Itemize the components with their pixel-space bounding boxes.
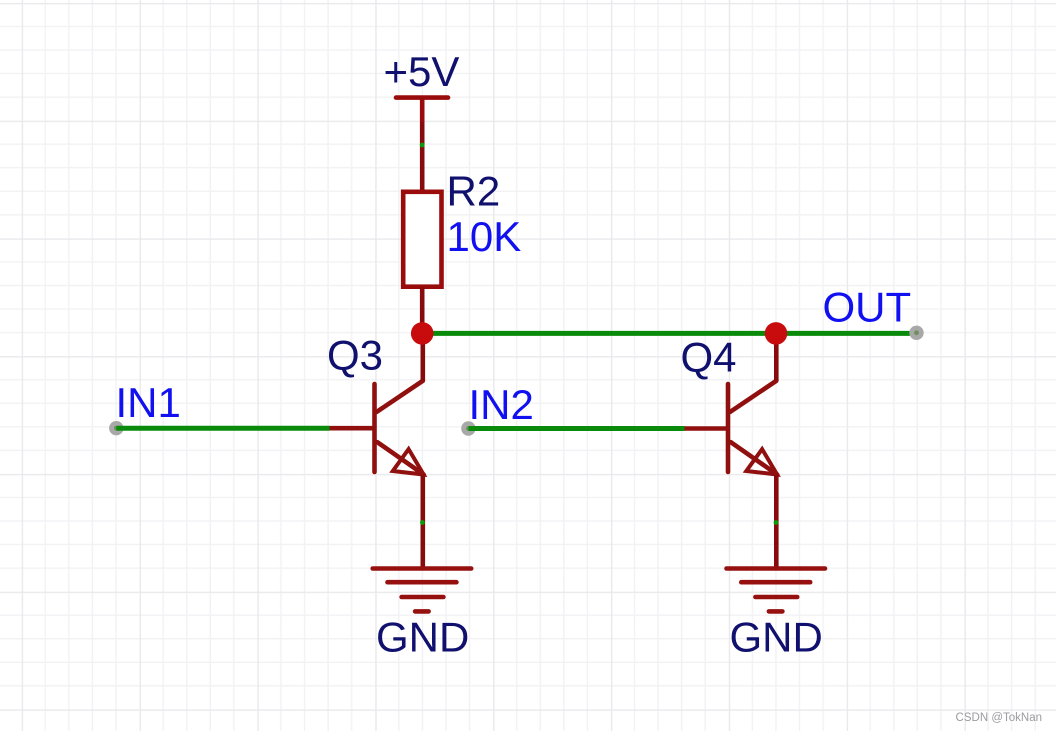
pin dot Q4 emitter <box>774 520 779 525</box>
wire R2 to node <box>420 287 425 333</box>
transistor Q3 <box>330 381 424 475</box>
svg-text:R2: R2 <box>447 168 501 215</box>
wire net IN1 (green) <box>116 426 329 431</box>
svg-text:+5V: +5V <box>384 48 460 95</box>
pin dot Q3 emitter <box>420 520 425 525</box>
pin end IN1 <box>109 421 123 435</box>
ground symbol left <box>373 569 472 612</box>
svg-text:IN1: IN1 <box>116 379 181 426</box>
collector wire Q4 <box>774 333 779 380</box>
svg-text:CSDN @TokNan: CSDN @TokNan <box>956 712 1042 724</box>
emitter wire Q3 to ground <box>420 475 425 569</box>
junction node at Q4 collector <box>765 322 788 345</box>
transistor Q4 <box>685 381 778 475</box>
ground symbol right <box>727 569 826 612</box>
power symbol +5V <box>396 98 448 122</box>
pin end IN2 <box>461 421 475 435</box>
wire +5V to R2 <box>420 122 425 190</box>
collector wire Q3 <box>420 333 425 380</box>
emitter wire Q4 to ground <box>774 475 779 569</box>
pin junction dot +5V/R2 <box>420 143 425 148</box>
svg-text:Q3: Q3 <box>327 332 383 379</box>
svg-text:Q4: Q4 <box>681 333 737 380</box>
wire net OUT (green) <box>422 331 916 336</box>
svg-text:GND: GND <box>730 614 823 661</box>
resistor R2 <box>403 192 441 287</box>
pin end OUT <box>909 326 923 340</box>
svg-text:GND: GND <box>376 614 469 661</box>
svg-text:IN2: IN2 <box>469 381 534 428</box>
junction node at R2/Q3 collector <box>411 322 434 345</box>
svg-text:10K: 10K <box>447 213 522 260</box>
svg-text:OUT: OUT <box>823 284 912 331</box>
wire net IN2 (green) <box>468 426 684 431</box>
